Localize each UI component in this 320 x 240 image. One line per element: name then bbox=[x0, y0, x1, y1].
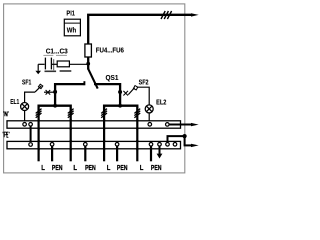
cable slashes L1 bbox=[36, 109, 42, 118]
terminal circle PEN3 bbox=[115, 143, 119, 147]
echo dashes under label bbox=[43, 54, 53, 56]
switch QS1 blade bbox=[88, 68, 98, 88]
QS1 left contact tick bbox=[83, 81, 85, 85]
svg-text:L: L bbox=[140, 163, 144, 172]
wire: PE output link bbox=[168, 136, 185, 145]
svg-text:SF2: SF2 bbox=[139, 77, 149, 86]
N busbar bbox=[7, 121, 181, 128]
terminal circle EL1 on N bus bbox=[23, 123, 27, 127]
svg-text:C1...C3: C1...C3 bbox=[46, 47, 68, 56]
terminal circle N output bbox=[166, 123, 170, 127]
feeder L4 line bbox=[136, 112, 138, 161]
lamp EL2 bbox=[145, 105, 153, 113]
feeder group bar 1 bbox=[39, 106, 71, 115]
capacitor C1...C3 plates bbox=[45, 58, 51, 70]
wire: QS1 to SF1 branch bbox=[55, 84, 84, 106]
terminal circle PEN1 bbox=[50, 143, 54, 147]
border frame bbox=[4, 4, 185, 173]
svg-text:L: L bbox=[41, 163, 45, 172]
terminal circle PEN4 bbox=[149, 143, 153, 147]
breaker SF1: wire from lamp bbox=[25, 92, 35, 103]
junction dot capacitor branch bbox=[86, 62, 90, 66]
terminal circle N-PE link on PE bus bbox=[29, 143, 33, 147]
svg-text:Wh: Wh bbox=[67, 25, 77, 34]
label PE bbox=[3, 132, 9, 138]
breaker SF1 hook bbox=[38, 84, 42, 88]
breaker SF2 blade bbox=[128, 88, 134, 95]
terminal circle PEN2 bbox=[84, 143, 88, 147]
svg-text:L: L bbox=[107, 163, 111, 172]
wire: fuse box to main line bbox=[69, 63, 88, 65]
meter PI1 box bbox=[64, 19, 80, 36]
breaker SF1 blade bbox=[35, 86, 41, 92]
wire: SF1 X to junction bbox=[44, 91, 55, 93]
junction dot bar 2 feed bbox=[118, 104, 122, 108]
svg-text:EL1: EL1 bbox=[10, 97, 19, 106]
wire: QS1 output right bbox=[94, 84, 120, 106]
cable slashes L2 bbox=[68, 109, 74, 118]
echo bar under capacitor bbox=[45, 70, 57, 72]
cable slashes L3 bbox=[101, 109, 107, 118]
label N bbox=[4, 111, 9, 116]
wire: lamp EL1 to N bus bbox=[24, 111, 26, 123]
breaker SF2 hook bbox=[133, 86, 137, 90]
svg-text:PI1: PI1 bbox=[66, 9, 75, 18]
svg-text:PEN: PEN bbox=[52, 163, 63, 172]
svg-text:EL2: EL2 bbox=[156, 98, 166, 107]
supply 3-phase slashes bbox=[161, 11, 172, 19]
terminal circle EL2 on N bus bbox=[148, 123, 152, 127]
svg-text:SF1: SF1 bbox=[22, 77, 31, 86]
wire: capacitor branch bbox=[38, 63, 44, 65]
wire: N-PE link bbox=[30, 124, 32, 144]
PEN stems from PE bus bbox=[52, 146, 151, 161]
cable slashes L4 bbox=[134, 109, 140, 118]
wire: top supply bus bbox=[88, 15, 191, 44]
junction dot bar 1 feed bbox=[53, 104, 57, 108]
wire: SF2 to lamp EL2 bbox=[137, 87, 149, 105]
ground (capacitor branch) bbox=[35, 64, 41, 74]
junction dot SF2 bbox=[118, 90, 122, 94]
junction dot PE output bbox=[183, 134, 187, 138]
lamp EL1 bbox=[21, 103, 29, 111]
svg-text:QS1: QS1 bbox=[106, 73, 119, 82]
terminal circle PE ground bbox=[158, 143, 162, 147]
capacitor echo plate bbox=[53, 59, 55, 70]
svg-text:L: L bbox=[73, 163, 77, 172]
echo bar under fuse box bbox=[60, 70, 72, 72]
feeder L2 line bbox=[70, 112, 72, 161]
supply arrow bbox=[191, 13, 199, 16]
svg-text:PEN: PEN bbox=[151, 163, 162, 172]
terminal circle PE output link bbox=[166, 143, 170, 147]
ground arrow under PE bus bbox=[157, 146, 163, 158]
wire: lamp EL2 to N bus bbox=[148, 113, 150, 122]
breaker SF2 X contact bbox=[123, 91, 128, 96]
feeder lines crossing N bus bbox=[39, 120, 138, 130]
feeder lines crossing PE bus bbox=[39, 140, 138, 150]
N output arrow bbox=[169, 124, 191, 126]
PE busbar bbox=[7, 141, 181, 148]
wire: fuse to QS1 bbox=[87, 57, 89, 69]
terminal circle PE spare bbox=[173, 143, 177, 147]
wire: capacitor to fuse box bbox=[51, 63, 57, 65]
svg-text:PEN: PEN bbox=[117, 163, 128, 172]
svg-text:FU4...FU6: FU4...FU6 bbox=[96, 46, 124, 55]
feeder group bar 2 bbox=[104, 106, 137, 115]
junction dot SF1 bbox=[53, 90, 57, 94]
fuse FU4...FU6 bbox=[85, 44, 92, 57]
fuse box (capacitor branch) bbox=[57, 61, 69, 67]
breaker SF1 X contact bbox=[46, 90, 51, 95]
feeder L3 line bbox=[103, 112, 105, 161]
PEN output arrow bbox=[184, 144, 192, 146]
terminal circle N-PE link on N bus bbox=[29, 123, 33, 127]
svg-text:PEN: PEN bbox=[85, 163, 96, 172]
feeder L1 line bbox=[37, 112, 39, 161]
